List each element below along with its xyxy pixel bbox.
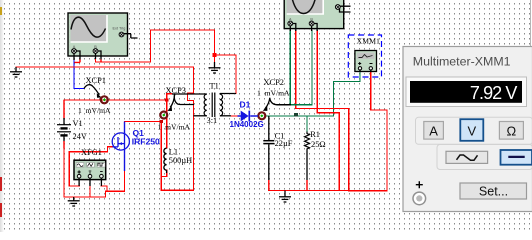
transistor Q1 (IRF250 MOSFET) bbox=[112, 122, 129, 172]
wire bottom rail up-step to source wire bbox=[106, 191, 108, 197]
svg-text:1 mV/mA: 1 mV/mA bbox=[257, 89, 290, 98]
wire T1 primary-bottom down-left rail (with jog) bbox=[161, 67, 193, 190]
node junction at L1 wire bbox=[165, 98, 168, 101]
resistor R1 bbox=[305, 132, 310, 191]
svg-text:7.92 V: 7.92 V bbox=[470, 83, 518, 103]
wire V1 plus to XCP1 to L1 node bbox=[64, 99, 167, 101]
svg-text:V1: V1 bbox=[73, 119, 83, 128]
node junction at drain corner bbox=[160, 120, 163, 123]
wire XFG1 minus to Q1 source bbox=[101, 171, 124, 191]
svg-text:1 mV/mA: 1 mV/mA bbox=[158, 123, 191, 132]
ground (bottom left, under V1 rail) bbox=[68, 197, 80, 206]
svg-text:XMM1: XMM1 bbox=[357, 37, 380, 46]
svg-text:XCP1: XCP1 bbox=[86, 76, 106, 85]
reading display bbox=[410, 81, 522, 103]
svg-text:Multimeter-XMM1: Multimeter-XMM1 bbox=[413, 55, 511, 69]
svg-text:V: V bbox=[467, 123, 476, 138]
wire L1 bottom to down rail bbox=[161, 170, 166, 177]
wire T1 primary top / XCP3 / L1 vertical bbox=[167, 94, 172, 148]
node junction on green rail bbox=[294, 113, 298, 117]
wire scope2 B-minus to output bottom rail bbox=[317, 31, 339, 191]
svg-text:Set...: Set... bbox=[479, 185, 508, 199]
svg-text:R1: R1 bbox=[310, 130, 320, 139]
current probe XCP2 bbox=[258, 98, 290, 120]
wire XCP2 probe cable bbox=[277, 104, 290, 106]
capacitor C1 bbox=[263, 116, 274, 191]
current probe XCP3 bbox=[160, 94, 193, 118]
wire Q1 drain to down rail bbox=[125, 122, 162, 191]
wire output bottom rail bbox=[269, 190, 349, 192]
wire scope2 A-minus loop to XMM1 minus net bbox=[296, 31, 387, 191]
button A bbox=[424, 122, 444, 140]
oscilloscope XSC2 (clipped at top) bbox=[284, 0, 350, 31]
svg-text:22µF: 22µF bbox=[275, 139, 293, 148]
battery V1 bbox=[57, 100, 71, 149]
wire green rail up to XMM1 plus bbox=[334, 72, 361, 117]
wire T1 secondary bottom red stub to D1 anode bbox=[231, 115, 238, 117]
node junction at scope1-B/ground wire bbox=[213, 53, 217, 57]
svg-text:XCP3: XCP3 bbox=[166, 86, 186, 95]
mode group frame bbox=[416, 117, 532, 144]
wire ground node to T1 secondary top bbox=[215, 55, 237, 94]
oscilloscope XSC1 bbox=[68, 13, 138, 62]
button DC (selected) bbox=[501, 150, 532, 165]
left window edge artifacts bbox=[0, 7, 2, 217]
svg-text:1 mV/mA: 1 mV/mA bbox=[78, 106, 111, 115]
svg-text:25Ω: 25Ω bbox=[311, 140, 326, 149]
button V (selected) bbox=[460, 119, 483, 141]
diode D1 (1N4002G) bbox=[238, 111, 259, 122]
wire XCP2 node green rail bbox=[266, 115, 334, 117]
button Ohm bbox=[499, 122, 523, 140]
svg-text:A: A bbox=[429, 123, 438, 138]
multimeter dialog window bbox=[403, 47, 532, 212]
transformer T1 bbox=[172, 93, 236, 118]
radio/terminal circle bbox=[413, 192, 426, 205]
ground (output rail) bbox=[279, 191, 291, 203]
svg-text:T1: T1 bbox=[210, 82, 219, 91]
wire XCP3 probe cable bbox=[180, 104, 194, 106]
current probe XCP1 bbox=[84, 85, 108, 104]
ground (left, near scope1) bbox=[10, 67, 22, 77]
wire V1 minus bottom rail bbox=[64, 141, 106, 197]
wire XMM1 minus down and around bbox=[371, 72, 387, 191]
wire XFG1 common to bottom rail bbox=[89, 186, 91, 197]
function generator XFG1 bbox=[74, 160, 106, 186]
svg-text:Ext Trig: Ext Trig bbox=[113, 27, 126, 31]
wire scope1 B to ground node bbox=[96, 30, 215, 62]
button Set bbox=[460, 183, 527, 199]
svg-text:Ω: Ω bbox=[507, 123, 517, 138]
svg-text:XCP2: XCP2 bbox=[264, 78, 284, 87]
wire scope1 A to XCP1 probe (blue) bbox=[74, 60, 84, 89]
multimeter XMM1 icon with selection box bbox=[348, 35, 381, 77]
window edge artifact top right bbox=[530, 0, 532, 46]
svg-text:IRF250: IRF250 bbox=[132, 137, 160, 147]
svg-text:XFG1: XFG1 bbox=[81, 148, 102, 157]
reading display bezel bbox=[406, 77, 527, 107]
wire XFG1 plus to Q1 gate bbox=[69, 147, 112, 186]
wire left ground to T1 primary net bbox=[16, 66, 194, 68]
wire green rail to R1 top bbox=[306, 116, 308, 132]
waveform group frame bbox=[437, 145, 532, 170]
ground (top, T1 secondary) bbox=[209, 62, 221, 73]
plus terminal mark bbox=[416, 181, 423, 188]
svg-text:1N4002G: 1N4002G bbox=[230, 120, 264, 129]
svg-text:D1: D1 bbox=[240, 100, 251, 110]
svg-text:3:1: 3:1 bbox=[207, 116, 218, 125]
svg-text:500µH: 500µH bbox=[169, 156, 192, 165]
inductor L1 bbox=[164, 148, 167, 173]
svg-text:24V: 24V bbox=[73, 132, 87, 141]
PANEL bbox=[403, 0, 532, 212]
wire scope2 A-plus / B-plus tie (XCP2 output) bbox=[290, 31, 312, 105]
button AC (sine) bbox=[446, 151, 488, 163]
